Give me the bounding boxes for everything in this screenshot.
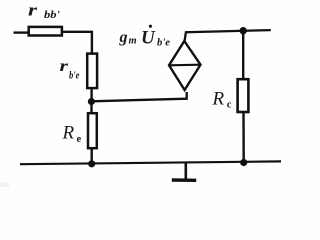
svg-text:r: r [60, 58, 70, 75]
wire node B' to R_e [90, 102, 92, 115]
wire R_c to bottom rail [242, 112, 245, 163]
wire r_b'e to node B' [90, 88, 92, 102]
node bottom-right junction dot [240, 159, 247, 166]
label g_m U_b'e [119, 25, 171, 49]
wire source top to top rail corner [184, 30, 270, 42]
resistor r_b'e [87, 54, 97, 89]
wire node C down to R_c [242, 31, 244, 80]
wire bottom rail [20, 161, 281, 164]
scan smudge bottom-left [0, 183, 9, 188]
svg-text:bb': bb' [44, 9, 60, 21]
svg-text:R: R [212, 88, 225, 109]
svg-text:R: R [62, 122, 75, 143]
svg-text:b'e: b'e [157, 38, 170, 49]
svg-text:e: e [77, 134, 82, 145]
wire node B' to current source bottom [91, 92, 186, 101]
ground [172, 163, 196, 181]
controlled current source g_m U_b'e (diamond) [169, 41, 201, 90]
svg-text:b'e: b'e [69, 71, 80, 82]
wire from r_bb' to r_b'e (corner) [63, 32, 92, 55]
wire input left [14, 31, 30, 33]
resistor R_c [238, 79, 249, 112]
resistor r_bb' [29, 27, 62, 36]
resistor R_e [88, 113, 97, 148]
svg-text:g: g [119, 29, 128, 46]
svg-text:m: m [129, 36, 137, 47]
wire R_e to ground rail [90, 148, 92, 164]
svg-text:U: U [141, 28, 156, 49]
node C junction dot [240, 27, 247, 34]
node E junction dot [88, 160, 95, 167]
node B' junction dot [88, 98, 95, 105]
svg-text:r: r [28, 0, 38, 19]
svg-text:c: c [227, 100, 232, 111]
